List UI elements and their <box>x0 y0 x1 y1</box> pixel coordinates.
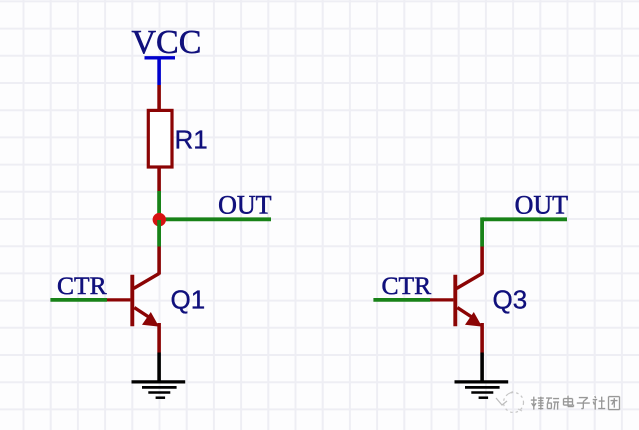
transistor Q3 <box>455 274 482 353</box>
wire OUT right (green horizontal) <box>482 217 567 221</box>
node junction dot <box>153 213 166 226</box>
wire green vertical <box>480 217 484 246</box>
svg-text:CTR: CTR <box>57 271 107 300</box>
wire to collector right <box>480 247 484 275</box>
wire junction down (green) <box>157 220 161 247</box>
wire base right (dark red) <box>430 298 453 301</box>
svg-text:Q3: Q3 <box>493 284 528 314</box>
svg-text:OUT: OUT <box>218 191 272 220</box>
svg-text:Q1: Q1 <box>171 284 206 314</box>
wire base (dark red) <box>107 298 130 301</box>
wire to collector (dark red) <box>157 247 161 275</box>
wire to resistor top <box>157 85 161 111</box>
svg-text:VCC: VCC <box>132 24 202 61</box>
wire green to junction <box>157 191 161 220</box>
wire OUT (green horizontal) <box>159 217 271 221</box>
wire resistor bottom <box>157 167 161 191</box>
wire emitter to ground right (black) <box>480 353 484 381</box>
ground symbol left <box>132 382 186 398</box>
wire VCC stem (blue) <box>157 58 161 85</box>
wire emitter to ground (black) <box>157 353 161 381</box>
svg-text:CTR: CTR <box>382 271 432 300</box>
watermark text <box>530 395 620 410</box>
resistor R1 <box>148 110 172 167</box>
ground symbol right <box>455 382 509 398</box>
power symbol VCC bar <box>145 56 176 59</box>
transistor Q1 <box>132 274 159 353</box>
wire CTR right (green) <box>373 298 430 302</box>
svg-text:OUT: OUT <box>515 191 569 220</box>
svg-text:R1: R1 <box>175 125 208 155</box>
watermark logo <box>496 392 524 413</box>
wire CTR (green) <box>50 298 107 302</box>
